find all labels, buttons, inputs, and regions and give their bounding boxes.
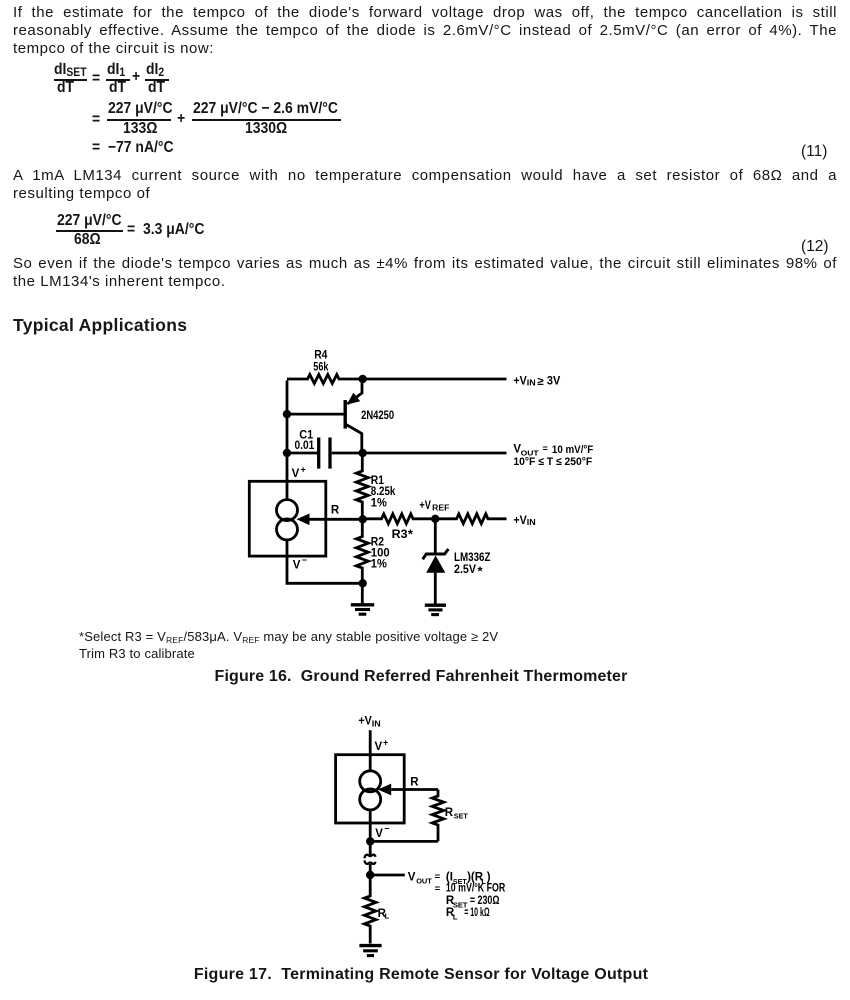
svg-text:+V: +V bbox=[358, 715, 372, 727]
svg-text:0.01: 0.01 bbox=[295, 440, 315, 452]
wire base to left rail bbox=[287, 413, 346, 416]
wire to VOUT label bbox=[370, 874, 405, 877]
resistor RL bbox=[364, 875, 389, 944]
ground under RL bbox=[359, 946, 381, 956]
svg-text:−: − bbox=[384, 824, 389, 834]
node C1 left junction bbox=[283, 449, 291, 457]
svg-text:+: + bbox=[383, 738, 388, 748]
label +VIN top bbox=[358, 715, 381, 728]
paragraph 1 bbox=[13, 4, 837, 57]
svg-text:100: 100 bbox=[371, 547, 390, 559]
svg-text:1%: 1% bbox=[371, 559, 387, 571]
label +VIN right bbox=[513, 515, 536, 527]
svg-text:V: V bbox=[292, 468, 300, 480]
node collector/VOUT junction bbox=[359, 449, 367, 457]
svg-text:R4: R4 bbox=[314, 350, 328, 362]
equation 12 bbox=[57, 213, 122, 229]
paragraph 2 bbox=[13, 167, 837, 202]
svg-text:2N4250: 2N4250 bbox=[361, 410, 394, 422]
op-amp U2 LM134 box bbox=[336, 755, 405, 823]
resistor R1 bbox=[356, 453, 396, 519]
svg-text:V: V bbox=[293, 559, 301, 571]
svg-text:+V: +V bbox=[419, 500, 431, 512]
capacitor C1 bbox=[287, 430, 362, 469]
svg-text:V: V bbox=[375, 828, 383, 840]
svg-text:2.5V: 2.5V bbox=[454, 564, 476, 576]
label V- bbox=[375, 824, 389, 840]
label V+ bbox=[375, 738, 389, 754]
wire left rail top bbox=[286, 380, 289, 499]
svg-text:IN: IN bbox=[527, 518, 536, 527]
svg-text:L: L bbox=[385, 912, 390, 921]
equation 11 row 3 bbox=[92, 140, 174, 156]
svg-text:V: V bbox=[375, 741, 383, 753]
equation 11 row 2 bbox=[92, 112, 100, 128]
wire break upper bbox=[364, 841, 375, 858]
svg-text:10 mV/°F: 10 mV/°F bbox=[552, 444, 594, 456]
ground under zener bbox=[425, 605, 446, 614]
diode D1 LM336Z zener bbox=[423, 519, 491, 605]
svg-text:*: * bbox=[408, 527, 414, 542]
svg-text:56k: 56k bbox=[313, 362, 329, 374]
svg-text:+V: +V bbox=[513, 515, 527, 527]
svg-text:≥: ≥ bbox=[537, 376, 544, 388]
node VOUT junction bbox=[366, 871, 374, 879]
resistor RSET bbox=[432, 790, 468, 842]
label +VIN >= 3V bbox=[513, 376, 560, 389]
svg-text:= 230Ω: = 230Ω bbox=[470, 895, 500, 907]
svg-text:10°F ≤ T ≤ 250°F: 10°F ≤ T ≤ 250°F bbox=[513, 456, 592, 468]
svg-text:−: − bbox=[302, 555, 307, 565]
wire R pin with arrow bbox=[378, 777, 438, 796]
wire V- bottom of box bbox=[369, 810, 372, 841]
label +VREF bbox=[419, 500, 449, 512]
ground under R2 bbox=[351, 583, 374, 614]
wire bottom to RSET bbox=[370, 840, 438, 843]
svg-text:REF: REF bbox=[432, 503, 449, 512]
resistor R2 bbox=[356, 519, 389, 583]
wire VOUT line bbox=[362, 452, 506, 455]
svg-text:L: L bbox=[453, 912, 458, 921]
svg-text:IN: IN bbox=[372, 719, 381, 728]
svg-text:=: = bbox=[543, 444, 548, 454]
svg-text:SET: SET bbox=[454, 811, 468, 820]
wire V+ top bbox=[369, 730, 372, 771]
paragraph 3 bbox=[13, 255, 837, 290]
node R junction bbox=[359, 515, 367, 523]
svg-text:+: + bbox=[301, 465, 306, 475]
resistor R4 bbox=[287, 350, 362, 384]
svg-text:LM336Z: LM336Z bbox=[454, 552, 491, 564]
caption figure 17 bbox=[0, 967, 842, 983]
resistor R3 bbox=[362, 514, 435, 542]
node base junction bbox=[283, 410, 291, 418]
node top junction bbox=[359, 375, 367, 383]
node V- junction bbox=[366, 837, 374, 845]
svg-text:1%: 1% bbox=[371, 498, 387, 510]
svg-text:=: = bbox=[435, 871, 441, 882]
wire break lower bbox=[364, 860, 375, 875]
svg-text:V: V bbox=[408, 872, 416, 884]
resistor unlabeled to +VIN bbox=[435, 514, 506, 524]
transistor Q1 2N4250 bbox=[345, 383, 394, 453]
node +VREF bbox=[431, 515, 439, 523]
svg-text:+V: +V bbox=[513, 376, 527, 388]
caption figure 16 bbox=[0, 669, 842, 685]
svg-text:R: R bbox=[410, 777, 419, 789]
svg-text:=: = bbox=[435, 884, 441, 895]
label VOUT = 10 mV/F bbox=[513, 444, 593, 468]
equation 11 row 1 bbox=[54, 62, 87, 78]
footnote bbox=[79, 629, 498, 662]
heading Typical Applications bbox=[13, 317, 187, 335]
svg-text:IN: IN bbox=[527, 379, 536, 388]
node bottom junction bbox=[359, 579, 367, 587]
svg-text:R: R bbox=[445, 807, 454, 819]
svg-text:10 mV/°K FOR: 10 mV/°K FOR bbox=[446, 883, 506, 895]
wire R pin with arrow bbox=[297, 505, 363, 526]
svg-text:*: * bbox=[478, 564, 484, 579]
svg-text:R3: R3 bbox=[392, 529, 408, 541]
svg-text:8.25k: 8.25k bbox=[371, 486, 396, 498]
op-amp U1 LM134 box bbox=[249, 465, 325, 572]
svg-text:= 10 kΩ: = 10 kΩ bbox=[464, 907, 489, 919]
label VOUT formula block bbox=[408, 871, 506, 921]
wire left rail bottom bbox=[287, 540, 362, 583]
svg-text:OUT: OUT bbox=[416, 877, 432, 886]
wire top to +VIN bbox=[362, 378, 506, 381]
svg-text:3V: 3V bbox=[547, 376, 561, 388]
svg-text:R: R bbox=[331, 505, 340, 517]
